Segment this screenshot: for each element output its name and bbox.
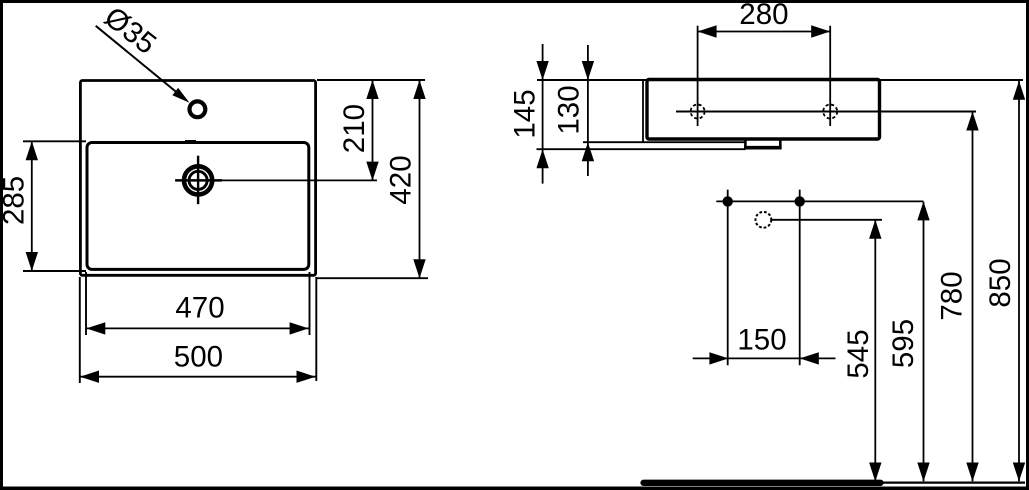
label 210 bbox=[338, 104, 371, 153]
dimension 130 bbox=[587, 45, 589, 176]
extension line bottom right of plan bbox=[317, 277, 428, 279]
extension line 285 bottom bbox=[23, 270, 86, 272]
dimension 545 bbox=[874, 220, 876, 481]
dimension 280 bbox=[698, 31, 831, 33]
label 285 bbox=[0, 176, 31, 225]
svg-text:130: 130 bbox=[553, 85, 586, 134]
extension line 500 left bbox=[79, 277, 81, 383]
drain crosshair vertical bbox=[197, 156, 199, 205]
svg-text:850: 850 bbox=[984, 258, 1017, 307]
leader arrowhead bbox=[172, 88, 189, 103]
faucet hole bbox=[190, 101, 206, 117]
frame bottom border bbox=[0, 487, 1029, 490]
label 595 bbox=[887, 319, 920, 368]
mounting hole left side view bbox=[691, 105, 705, 119]
extension line 285 top bbox=[23, 140, 86, 142]
basin rear edge thin line side view bbox=[642, 80, 644, 142]
svg-text:145: 145 bbox=[509, 89, 542, 138]
overflow mark on bowl top edge bbox=[185, 140, 196, 142]
label diameter 35 bbox=[98, 1, 162, 61]
dimension 500 bbox=[80, 376, 316, 378]
svg-text:780: 780 bbox=[936, 271, 969, 320]
extension line top right of plan bbox=[317, 79, 425, 81]
label 545 bbox=[842, 329, 875, 378]
frame left border bbox=[0, 0, 3, 490]
dimension 285 bbox=[31, 141, 33, 271]
extension line 500 right bbox=[315, 277, 317, 381]
dimension 210 bbox=[372, 80, 374, 181]
label 130 bbox=[553, 85, 586, 134]
front view hole line bbox=[716, 200, 923, 202]
extension line 130 bottom bbox=[583, 141, 746, 143]
extension line top of side view bbox=[537, 79, 1023, 81]
leader line to faucet hole bbox=[96, 26, 183, 98]
floor thin line bbox=[883, 482, 1025, 484]
svg-text:470: 470 bbox=[175, 291, 224, 324]
label 850 bbox=[984, 258, 1017, 307]
frame top border bbox=[0, 0, 1029, 3]
dimension 595 bbox=[923, 202, 925, 482]
dimension 780 bbox=[972, 112, 974, 481]
svg-text:210: 210 bbox=[338, 104, 371, 153]
label 145 bbox=[509, 89, 542, 138]
drain outer circle bbox=[184, 166, 212, 194]
drain level line to 545 dimension bbox=[771, 219, 882, 221]
extension line 470 right bbox=[309, 272, 311, 335]
extension line 145 bottom bbox=[537, 148, 746, 150]
mounting hole right side view bbox=[823, 105, 837, 119]
dimension 850 bbox=[1018, 81, 1020, 481]
extension line 280 right bbox=[829, 26, 831, 126]
svg-text:545: 545 bbox=[842, 329, 875, 378]
dimension 470 bbox=[86, 327, 308, 329]
extension line 470 left bbox=[85, 272, 87, 335]
label 420 bbox=[384, 155, 417, 204]
dimension 150 bbox=[693, 357, 836, 359]
svg-text:595: 595 bbox=[887, 319, 920, 368]
svg-text:280: 280 bbox=[739, 0, 788, 31]
svg-text:500: 500 bbox=[174, 340, 223, 373]
extension line 280 left bbox=[697, 26, 699, 126]
mounting holes centerline side view bbox=[676, 111, 976, 113]
dimension 145 bbox=[542, 44, 544, 184]
svg-text:150: 150 bbox=[737, 324, 786, 357]
front view drain dashed circle bbox=[756, 212, 772, 228]
floor thick bar bbox=[644, 480, 881, 486]
basin bowl inner rect plan view bbox=[87, 143, 309, 270]
drain centerline to 210 dimension bbox=[222, 179, 377, 181]
drain outlet notch side view bbox=[745, 140, 780, 148]
drain crosshair horizontal bbox=[175, 179, 222, 182]
front view right hole vertical bbox=[799, 190, 801, 366]
svg-text:285: 285 bbox=[0, 176, 31, 225]
drain inner circle bbox=[189, 171, 207, 189]
dimension 420 bbox=[419, 80, 421, 278]
label 780 bbox=[936, 271, 969, 320]
basin outer rim plan view bbox=[80, 81, 315, 276]
basin body side view bbox=[647, 80, 880, 140]
drain outlet notch bottom bold bbox=[744, 146, 782, 150]
front view left hole vertical bbox=[727, 190, 729, 366]
frame right border bbox=[1026, 0, 1029, 490]
svg-text:420: 420 bbox=[384, 155, 417, 204]
front view left hole dot bbox=[723, 196, 733, 206]
front view right hole dot bbox=[795, 196, 805, 206]
